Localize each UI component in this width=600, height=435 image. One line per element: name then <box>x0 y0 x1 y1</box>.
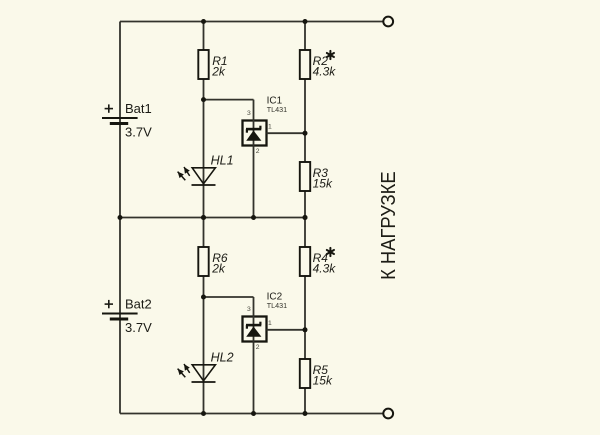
svg-text:4.3k: 4.3k <box>313 262 337 276</box>
svg-text:Bat1: Bat1 <box>125 101 152 116</box>
svg-text:TL431: TL431 <box>267 105 287 114</box>
svg-text:К НАГРУЗКЕ: К НАГРУЗКЕ <box>378 171 400 280</box>
svg-text:1: 1 <box>268 124 272 131</box>
svg-text:2k: 2k <box>211 65 226 79</box>
svg-text:4.3k: 4.3k <box>313 65 337 79</box>
svg-text:15k: 15k <box>313 374 333 388</box>
svg-text:2k: 2k <box>211 262 226 276</box>
svg-text:3: 3 <box>247 306 251 313</box>
svg-text:3.7V: 3.7V <box>125 125 152 140</box>
svg-text:2: 2 <box>256 148 260 155</box>
svg-text:3.7V: 3.7V <box>125 320 152 335</box>
svg-text:2: 2 <box>256 344 260 351</box>
svg-text:3: 3 <box>247 110 251 117</box>
svg-text:HL2: HL2 <box>211 350 234 364</box>
svg-text:1: 1 <box>268 320 272 327</box>
svg-text:Bat2: Bat2 <box>125 297 152 312</box>
svg-text:TL431: TL431 <box>267 301 287 310</box>
svg-text:15k: 15k <box>313 177 333 191</box>
svg-text:HL1: HL1 <box>211 153 234 167</box>
